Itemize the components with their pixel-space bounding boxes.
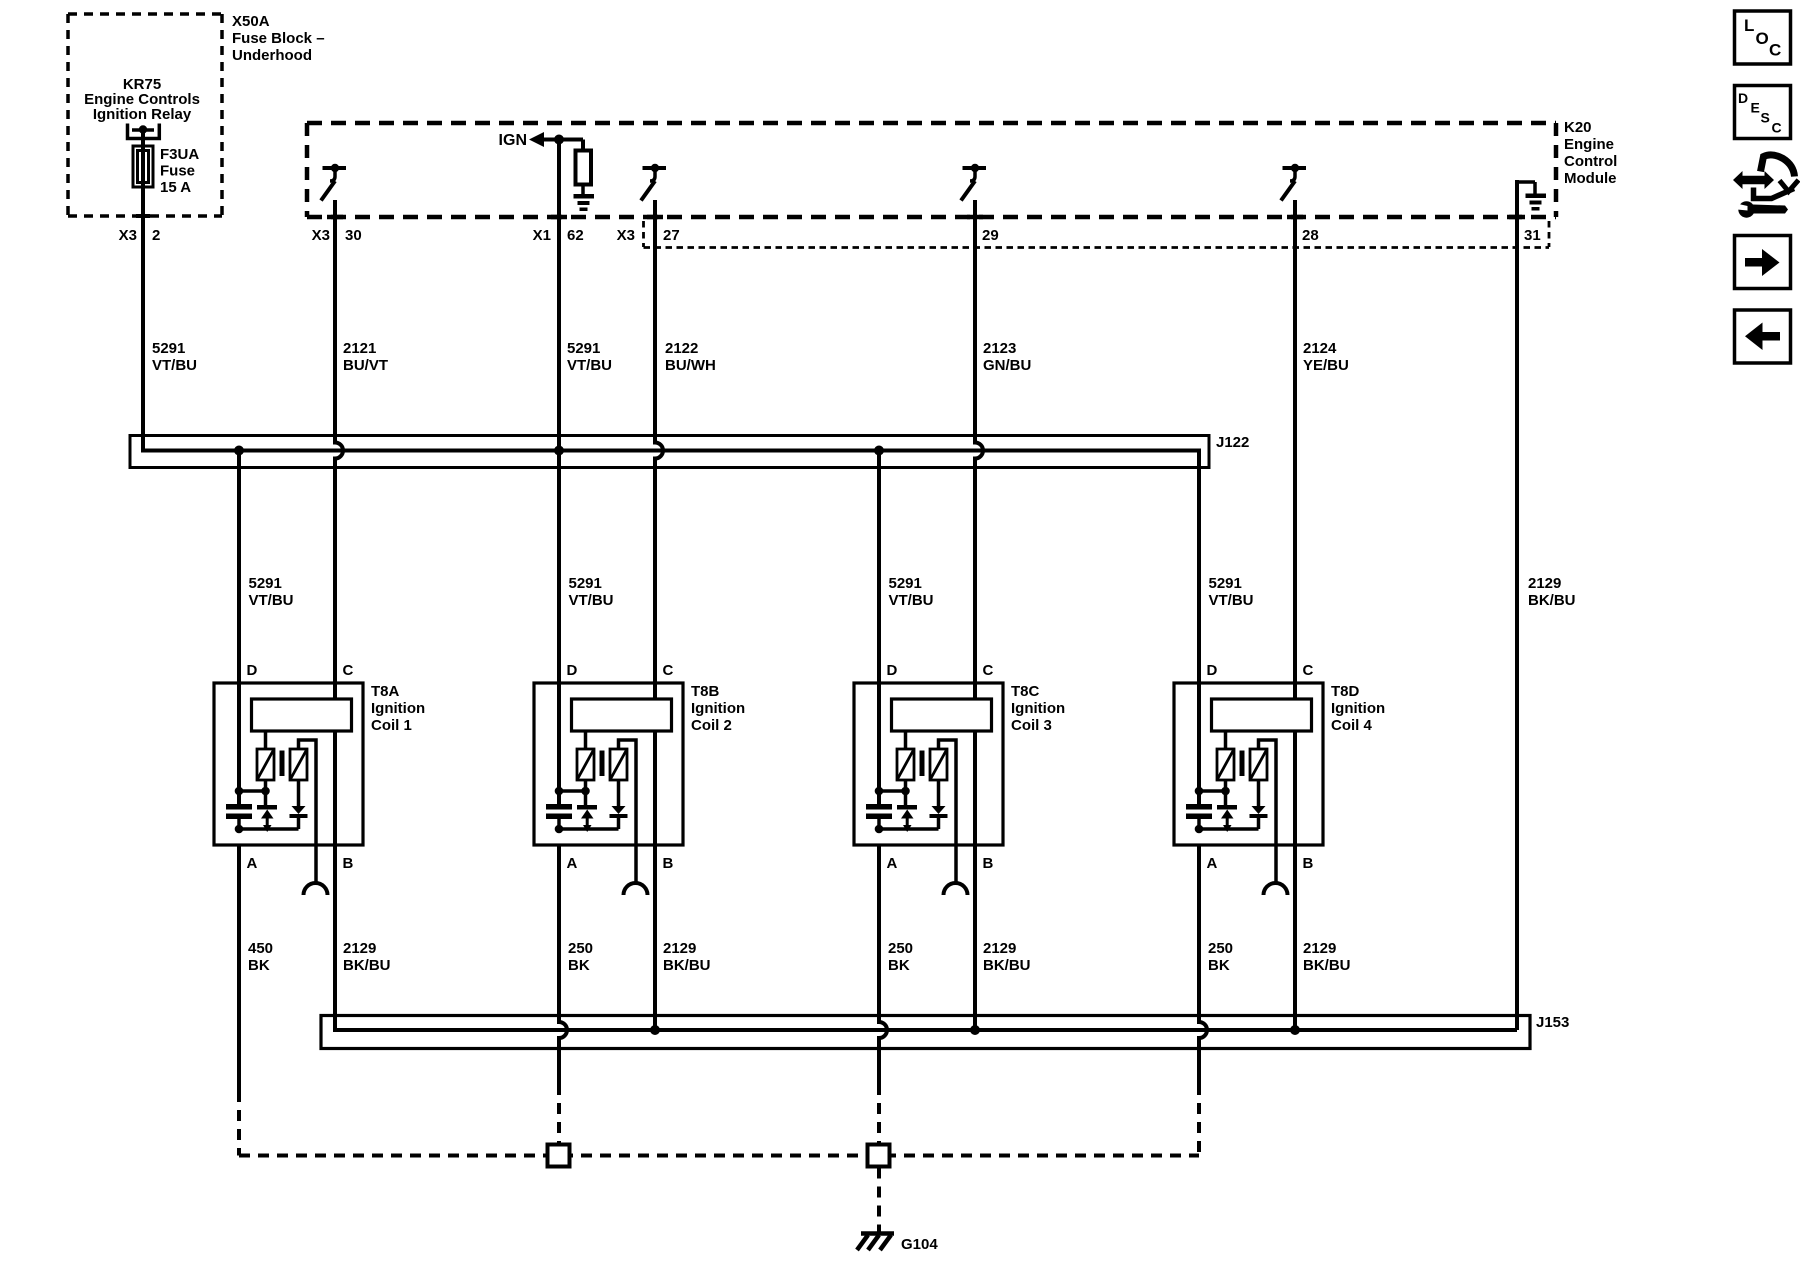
junction dot primary-low T8C <box>901 787 910 796</box>
svg-text:5291: 5291 <box>567 340 600 357</box>
svg-text:450: 450 <box>248 940 273 957</box>
svg-text:Coil 4: Coil 4 <box>1331 717 1372 734</box>
svg-text:D: D <box>247 662 258 679</box>
label T8D Ignition Coil 4 <box>1331 683 1385 734</box>
svg-text:5291: 5291 <box>569 575 602 592</box>
svg-text:C: C <box>1303 662 1314 679</box>
wire label 2123 GN/BU <box>983 340 1031 374</box>
svg-text:VT/BU: VT/BU <box>249 592 294 609</box>
wire 250 BK coil 3 pin A crossing J153 <box>879 845 887 1143</box>
svg-text:T8B: T8B <box>691 683 720 700</box>
zener diode inside T8B <box>577 805 597 832</box>
svg-text:GN/BU: GN/BU <box>983 357 1031 374</box>
coil T8B internal module box <box>572 699 672 731</box>
svg-text:X1: X1 <box>533 227 551 244</box>
junction dot primary-low T8A <box>261 787 270 796</box>
pin label X1 62 <box>533 227 584 244</box>
junction dot at IGN feed <box>554 135 564 145</box>
connector ticks on ECM bottom edge <box>136 216 1525 217</box>
capacitor inside T8A <box>226 804 252 829</box>
svg-text:BK/BU: BK/BU <box>983 957 1031 974</box>
svg-text:S: S <box>1761 110 1770 126</box>
coil T8B secondary winding <box>610 749 627 780</box>
svg-text:Ignition: Ignition <box>1011 700 1065 717</box>
coil T8C secondary winding <box>930 749 947 780</box>
junction dot D-wire T8A <box>235 787 244 796</box>
svg-text:T8C: T8C <box>1011 683 1040 700</box>
svg-text:250: 250 <box>1208 940 1233 957</box>
wire 2121 BU/VT from ECM pin 30 to coil pin C <box>335 200 343 699</box>
capacitor inside T8B <box>546 804 572 829</box>
coil T8D secondary output wire to spark gap <box>1259 740 1277 884</box>
svg-text:A: A <box>567 855 578 872</box>
coil T8D core bar <box>1240 751 1245 777</box>
svg-text:K20: K20 <box>1564 119 1592 136</box>
svg-text:BK: BK <box>248 957 270 974</box>
svg-text:VT/BU: VT/BU <box>152 357 197 374</box>
wire label 2129 BK/BU <box>1303 940 1351 974</box>
coil T8A internal module box <box>252 699 352 731</box>
wire label 5291 VT/BU (coil 3 feed) <box>889 575 934 609</box>
zener diode inside T8A <box>257 805 277 832</box>
svg-text:L: L <box>1744 16 1754 35</box>
svg-text:C: C <box>343 662 354 679</box>
svg-text:F3UA: F3UA <box>160 146 199 163</box>
ground symbol inside ECM below resistor <box>574 184 595 211</box>
chassis ground symbol G104 <box>857 1234 894 1251</box>
svg-text:Coil 3: Coil 3 <box>1011 717 1052 734</box>
pin label X3 27 <box>617 227 680 244</box>
wire 2124 YE/BU from ECM pin 28 to coil pin C <box>1293 200 1297 699</box>
svg-text:2129: 2129 <box>983 940 1016 957</box>
wire 5291 VT/BU J122 to coil 3 pin D <box>877 451 881 805</box>
svg-text:D: D <box>887 662 898 679</box>
zener diode inside T8C <box>897 805 917 832</box>
coil T8A secondary output wire to spark gap <box>299 740 317 884</box>
pin label X3 2 <box>119 227 161 244</box>
svg-text:Module: Module <box>1564 170 1617 187</box>
label K20 Engine Control Module <box>1564 119 1617 187</box>
icon box back arrow <box>1735 310 1791 363</box>
wire label 2122 BU/WH <box>665 340 716 374</box>
ignition coil T8B outer box <box>534 683 683 845</box>
svg-text:E: E <box>1751 100 1760 116</box>
svg-text:Engine: Engine <box>1564 136 1614 153</box>
wire coil T8B pin B low reference <box>653 731 657 1030</box>
svg-text:X3: X3 <box>617 227 635 244</box>
coil T8D internal module box <box>1212 699 1312 731</box>
wire label 2124 YE/BU <box>1303 340 1349 374</box>
svg-text:30: 30 <box>345 227 362 244</box>
wire label 5291 VT/BU <box>567 340 612 374</box>
svg-text:2: 2 <box>152 227 160 244</box>
junction dot primary-low T8B <box>581 787 590 796</box>
pin label X3 30 <box>312 227 362 244</box>
svg-text:62: 62 <box>567 227 584 244</box>
wire 5291 VT/BU from ECM pin 62 through J122 to coil 2 pin D <box>557 140 561 805</box>
label F3UA Fuse 15 A <box>160 146 199 196</box>
junction dot ground bus T8B <box>555 825 564 834</box>
svg-text:28: 28 <box>1302 227 1319 244</box>
fuse F3UA 15A symbol <box>133 146 153 187</box>
coil T8B core bar <box>600 751 605 777</box>
svg-text:T8A: T8A <box>371 683 400 700</box>
wire coil T8C pin B low reference <box>973 731 977 1030</box>
svg-text:5291: 5291 <box>152 340 185 357</box>
svg-text:B: B <box>663 855 674 872</box>
junction dot D-wire T8C <box>875 787 884 796</box>
svg-text:BK/BU: BK/BU <box>1528 592 1576 609</box>
junction dot D-wire T8D <box>1195 787 1204 796</box>
coil T8B primary low wire <box>559 780 586 805</box>
wire label 5291 VT/BU (coil 2 feed) <box>569 575 614 609</box>
svg-text:J122: J122 <box>1216 434 1249 451</box>
junction dot J153 coil 4 pin B <box>1290 1025 1300 1035</box>
svg-text:Ignition: Ignition <box>1331 700 1385 717</box>
coil T8A primary low wire <box>239 780 266 805</box>
icon box forward arrow <box>1735 236 1791 289</box>
wire label 5291 VT/BU <box>152 340 197 374</box>
svg-text:BK/BU: BK/BU <box>1303 957 1351 974</box>
ignition coil T8C outer box <box>854 683 1003 845</box>
svg-text:BU/VT: BU/VT <box>343 357 388 374</box>
junction dot J153 coil 3 pin B <box>970 1025 980 1035</box>
coil T8D internal ground bus wire <box>1199 827 1259 831</box>
ECM driver switch for pin 28 <box>1281 164 1306 201</box>
svg-text:250: 250 <box>568 940 593 957</box>
svg-text:B: B <box>343 855 354 872</box>
svg-text:A: A <box>247 855 258 872</box>
svg-text:VT/BU: VT/BU <box>1209 592 1254 609</box>
coil T8A secondary winding <box>290 749 307 780</box>
wire coil T8A pin B low reference <box>333 731 337 845</box>
svg-text:Underhood: Underhood <box>232 47 312 64</box>
coil T8C primary winding <box>897 731 914 780</box>
coil T8D secondary winding <box>1250 749 1267 780</box>
svg-text:2121: 2121 <box>343 340 376 357</box>
junction dot ground bus T8A <box>235 825 244 834</box>
svg-text:BK: BK <box>568 957 590 974</box>
wire coil T8D pin B low reference <box>1293 731 1297 1030</box>
svg-text:Control: Control <box>1564 153 1617 170</box>
svg-text:C: C <box>1772 120 1782 136</box>
wire label 450 BK <box>248 940 273 974</box>
coil T8B internal ground bus wire <box>559 827 619 831</box>
wire 2129 BK/BU from ECM pin 31 to J153 <box>1515 180 1519 1030</box>
svg-text:YE/BU: YE/BU <box>1303 357 1349 374</box>
wire label 5291 VT/BU (coil 1 feed) <box>249 575 294 609</box>
wire 2122 BU/WH from ECM pin 27 to coil pin C <box>655 200 663 699</box>
resistor inside ECM (pull-up) <box>576 151 592 185</box>
spark plug gap of T8B <box>624 883 648 895</box>
spark plug gap of T8C <box>944 883 968 895</box>
label KR75 Engine Controls Ignition Relay <box>84 76 200 123</box>
junction dot D-wire T8B <box>555 787 564 796</box>
ECM K20 dashed box <box>307 123 1556 217</box>
ignition coil T8D outer box <box>1174 683 1323 845</box>
coil T8B secondary output wire to spark gap <box>619 740 637 884</box>
svg-text:Fuse Block –: Fuse Block – <box>232 30 325 47</box>
coil T8C secondary output wire to spark gap <box>939 740 957 884</box>
spark plug gap of T8D <box>1264 883 1288 895</box>
svg-text:BK: BK <box>1208 957 1230 974</box>
svg-text:C: C <box>663 662 674 679</box>
junction dot ground bus T8D <box>1195 825 1204 834</box>
svg-text:Coil 1: Coil 1 <box>371 717 412 734</box>
svg-text:Ignition Relay: Ignition Relay <box>93 106 192 123</box>
wire label 2121 BU/VT <box>343 340 388 374</box>
svg-text:D: D <box>567 662 578 679</box>
dashed ground wire bus to G104 <box>239 1154 1199 1158</box>
svg-text:X3: X3 <box>119 227 137 244</box>
svg-text:2123: 2123 <box>983 340 1016 357</box>
wire 5291 VT/BU J122 to coil 1 pin D <box>237 451 241 805</box>
svg-text:BU/WH: BU/WH <box>665 357 716 374</box>
svg-text:31: 31 <box>1524 227 1541 244</box>
svg-text:2129: 2129 <box>1528 575 1561 592</box>
ECM X3 sub-connector thin dashed outline <box>644 221 1550 248</box>
diode inside T8C <box>930 780 948 829</box>
junction dot J122 to coil 1 <box>234 446 244 456</box>
fuse block X50A dashed box <box>68 14 222 216</box>
ground symbol inside ECM at pin 31 <box>1517 182 1546 211</box>
wire label 2129 BK/BU (ECM pin 31) <box>1528 575 1576 609</box>
svg-text:D: D <box>1738 90 1748 106</box>
svg-text:X50A: X50A <box>232 13 270 30</box>
zener diode inside T8D <box>1217 805 1237 832</box>
junction dot primary-low T8D <box>1221 787 1230 796</box>
icon swap and tools <box>1732 155 1799 218</box>
diode inside T8A <box>290 780 308 829</box>
svg-text:VT/BU: VT/BU <box>889 592 934 609</box>
svg-text:BK/BU: BK/BU <box>343 957 391 974</box>
svg-text:Ignition: Ignition <box>371 700 425 717</box>
svg-text:X3: X3 <box>312 227 330 244</box>
svg-text:15 A: 15 A <box>160 179 191 196</box>
junction dot J122 to coil 3 <box>874 446 884 456</box>
label T8C Ignition Coil 3 <box>1011 683 1065 734</box>
icon box LOC <box>1735 11 1791 64</box>
coil T8C internal ground bus wire <box>879 827 939 831</box>
svg-text:B: B <box>1303 855 1314 872</box>
wire 450 BK coil1 pin A to ground network <box>237 845 241 1156</box>
svg-text:27: 27 <box>663 227 680 244</box>
ECM driver switch for pin 30 <box>321 164 346 201</box>
svg-text:A: A <box>887 855 898 872</box>
svg-text:Fuse: Fuse <box>160 163 195 180</box>
ECM driver switch for pin 27 <box>641 164 666 201</box>
coil T8A core bar <box>280 751 285 777</box>
svg-text:G104: G104 <box>901 1236 938 1253</box>
svg-text:Coil 2: Coil 2 <box>691 717 732 734</box>
wire 2129 BK/BU coil1 pin B to J153 splice <box>335 845 1517 1030</box>
wire label 250 BK <box>568 940 593 974</box>
wire 250 BK coil 2 pin A crossing J153 <box>559 845 567 1143</box>
svg-text:T8D: T8D <box>1331 683 1360 700</box>
ignition coil T8A outer box <box>214 683 363 845</box>
coil T8B primary winding <box>577 731 594 780</box>
svg-text:O: O <box>1756 29 1769 48</box>
capacitor inside T8D <box>1186 804 1212 829</box>
svg-text:2129: 2129 <box>1303 940 1336 957</box>
svg-text:A: A <box>1207 855 1218 872</box>
svg-text:VT/BU: VT/BU <box>569 592 614 609</box>
wire 5291 VT/BU from fuse through J122 splice to coil 4 pin D <box>143 187 1199 804</box>
svg-text:5291: 5291 <box>1209 575 1242 592</box>
capacitor inside T8C <box>866 804 892 829</box>
label T8A Ignition Coil 1 <box>371 683 425 734</box>
svg-text:2122: 2122 <box>665 340 698 357</box>
svg-text:5291: 5291 <box>889 575 922 592</box>
coil T8D primary winding <box>1217 731 1234 780</box>
svg-text:D: D <box>1207 662 1218 679</box>
wire 250 BK coil 4 pin A crossing J153 <box>1199 845 1207 1156</box>
label X50A Fuse Block - Underhood <box>232 13 325 64</box>
node IGN arrow <box>499 132 544 149</box>
wire label 5291 VT/BU (coil 4 feed) <box>1209 575 1254 609</box>
svg-text:C: C <box>1769 41 1781 60</box>
inline connector square at coil3 ground wire <box>868 1145 890 1167</box>
icon box DESC <box>1735 86 1791 139</box>
wire label 2129 BK/BU <box>983 940 1031 974</box>
spark plug gap of T8A <box>304 883 328 895</box>
svg-text:BK: BK <box>888 957 910 974</box>
svg-text:IGN: IGN <box>499 132 527 149</box>
junction dot J153 coil 2 pin B <box>650 1025 660 1035</box>
svg-text:2124: 2124 <box>1303 340 1337 357</box>
inline connector square at coil2 ground wire <box>548 1145 570 1167</box>
wire label 2129 BK/BU <box>343 940 391 974</box>
svg-text:29: 29 <box>982 227 999 244</box>
coil T8A primary winding <box>257 731 274 780</box>
coil T8C primary low wire <box>879 780 906 805</box>
wire 2123 GN/BU from ECM pin 29 to coil pin C <box>975 200 983 699</box>
wire IGN feed inside ECM <box>542 140 583 152</box>
coil T8C internal module box <box>892 699 992 731</box>
svg-text:J153: J153 <box>1536 1014 1569 1031</box>
svg-text:BK/BU: BK/BU <box>663 957 711 974</box>
coil T8C core bar <box>920 751 925 777</box>
svg-text:B: B <box>983 855 994 872</box>
svg-text:Ignition: Ignition <box>691 700 745 717</box>
svg-text:250: 250 <box>888 940 913 957</box>
coil T8A internal ground bus wire <box>239 827 299 831</box>
wire label 250 BK <box>888 940 913 974</box>
ECM driver switch for pin 29 <box>961 164 986 201</box>
junction dot J122 to coil 2 <box>554 446 564 456</box>
svg-text:VT/BU: VT/BU <box>567 357 612 374</box>
diode inside T8D <box>1250 780 1268 829</box>
relay KR75 contact symbol <box>128 124 160 146</box>
svg-text:5291: 5291 <box>249 575 282 592</box>
splice pack J122 outline <box>130 436 1209 468</box>
svg-text:2129: 2129 <box>663 940 696 957</box>
label T8B Ignition Coil 2 <box>691 683 745 734</box>
diode inside T8B <box>610 780 628 829</box>
svg-text:2129: 2129 <box>343 940 376 957</box>
wire label 250 BK <box>1208 940 1233 974</box>
wire label 2129 BK/BU <box>663 940 711 974</box>
junction dot ground bus T8C <box>875 825 884 834</box>
coil T8D primary low wire <box>1199 780 1226 805</box>
svg-text:C: C <box>983 662 994 679</box>
dashed wire from connector to ground G104 <box>877 1168 881 1233</box>
splice pack J153 outline <box>321 1016 1530 1049</box>
